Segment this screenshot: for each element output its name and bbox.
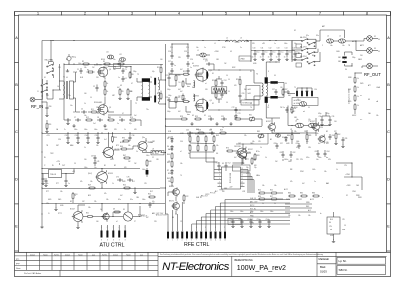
svg-text:3: 3 (205, 227, 206, 229)
svg-text:R71a: R71a (256, 151, 260, 153)
svg-text:47: 47 (122, 113, 124, 115)
capacitor C63 row (317, 151, 319, 153)
capacitor C53 row (259, 219, 261, 221)
svg-text:C24: C24 (224, 80, 227, 82)
svg-text:FB: FB (114, 66, 116, 68)
svg-text:35V: 35V (252, 43, 255, 45)
svg-text:1k: 1k (357, 96, 359, 98)
resistor R27 output (282, 88, 284, 90)
feedback capacitor C25 (221, 92, 223, 94)
svg-text:D7: D7 (167, 170, 169, 172)
svg-text:1k: 1k (274, 203, 276, 205)
resistor R51 (86, 216, 88, 218)
svg-text:DR 100u: DR 100u (152, 153, 158, 155)
svg-text:4k7: 4k7 (234, 157, 237, 159)
wire rail row taps (67, 133, 69, 135)
junction dots pass3 (73, 63, 74, 64)
svg-text:C35: C35 (95, 135, 98, 137)
svg-text:0R22: 0R22 (110, 159, 114, 161)
svg-text:1n: 1n (204, 47, 206, 49)
svg-text:K3a: K3a (316, 35, 319, 37)
wire bead chain (344, 52, 346, 56)
svg-text:10k: 10k (180, 163, 183, 165)
svg-text:TX: TX (74, 57, 76, 59)
svg-text:100k: 100k (296, 141, 300, 143)
LED D1 status (67, 56, 71, 60)
svg-text:100u: 100u (146, 155, 150, 157)
resistor network row2 (189, 144, 191, 146)
wire Q5 Q6 (108, 145, 110, 147)
svg-text:R9: R9 (122, 91, 124, 93)
capacitor C5 lower path (81, 111, 83, 113)
resistor R5 (87, 71, 89, 73)
svg-text:D3: D3 (113, 209, 115, 211)
svg-text:R86: R86 (312, 193, 315, 195)
junction dots rails (67, 132, 68, 133)
svg-text:T3: T3 (150, 77, 152, 79)
wire top supply rail (42, 40, 227, 42)
box ctrl outline (233, 165, 251, 171)
MOSFET Q17 atu driver (103, 213, 109, 219)
wire supply vertical x251 (250, 41, 252, 63)
svg-text:470u: 470u (306, 157, 310, 159)
wire driver verticals (104, 78, 106, 80)
svg-text:SET: SET (56, 145, 59, 147)
svg-text:C73: C73 (238, 113, 241, 115)
inductor L6 lowpass (296, 123, 304, 128)
capacitor C7 bottom row (75, 119, 77, 121)
svg-text:1n: 1n (222, 127, 224, 129)
svg-text:0.1u: 0.1u (256, 52, 259, 54)
wire RFE pads up (167, 214, 169, 231)
resistor R13 bottom row (107, 119, 109, 121)
svg-text:J5: J5 (48, 213, 50, 215)
svg-text:220: 220 (96, 77, 99, 79)
svg-text:R62: R62 (167, 178, 170, 180)
svg-text:100E: 100E (336, 51, 340, 53)
capacitor C37 (94, 155, 96, 157)
svg-text:1u: 1u (274, 43, 276, 45)
svg-text:470p: 470p (326, 113, 330, 115)
ferrite bead FB3 output upper (270, 81, 277, 84)
svg-text:BZX: BZX (168, 137, 171, 139)
transistor Q14 (313, 124, 320, 131)
inductor L4 (327, 39, 334, 43)
resistor R21 gate lower (175, 96, 177, 98)
svg-text:S1: S1 (192, 87, 194, 89)
snubber resistor R26 (239, 78, 241, 80)
svg-text:n.c: n.c (360, 95, 362, 97)
svg-text:RD16: RD16 (101, 59, 105, 61)
svg-text:HA-12/HA4: HA-12/HA4 (45, 58, 54, 61)
svg-text:5: 5 (215, 227, 216, 229)
svg-text:F2: F2 (346, 195, 348, 197)
svg-text:R57: R57 (270, 196, 273, 198)
relay K4 switch (301, 59, 302, 60)
resistor R7 gate divider (104, 88, 106, 90)
wire right antenna feed (319, 30, 321, 41)
svg-text:10u: 10u (104, 129, 107, 131)
capacitor C70 TC row (218, 163, 220, 165)
svg-text:Datum: Datum (113, 253, 119, 256)
transistor Q10 (239, 151, 246, 158)
resistor array RA1 (212, 87, 227, 94)
svg-text:1k: 1k (112, 183, 114, 185)
svg-text:100n: 100n (318, 157, 322, 159)
svg-text:SD2933: SD2933 (193, 66, 199, 68)
svg-text:1k: 1k (124, 129, 126, 131)
capacitor C52 row (250, 219, 252, 221)
capacitor C45 top row (187, 132, 189, 134)
ferrite bead FB2 (342, 61, 346, 63)
svg-text:C37: C37 (91, 156, 94, 158)
svg-text:10k: 10k (308, 215, 311, 217)
svg-text:D1: D1 (212, 73, 214, 75)
svg-text:BC557: BC557 (310, 121, 315, 123)
wire rail y203 (42, 203, 165, 205)
PA core bias verticals (185, 78, 187, 84)
svg-text:OUT: OUT (62, 165, 65, 167)
capacitor C4 (122, 76, 124, 78)
svg-text:4R7: 4R7 (112, 95, 115, 97)
connector X1 RF_IN jack (30, 97, 35, 102)
svg-text:1n: 1n (117, 123, 119, 125)
svg-text:C64: C64 (327, 151, 330, 153)
svg-text:Name: Name (78, 254, 83, 256)
capacitor C3 (122, 68, 124, 70)
svg-text:13V8: 13V8 (352, 191, 356, 193)
capacitor C1 input coupling (80, 68, 82, 70)
svg-text:RXTX: RXTX (205, 194, 209, 196)
jack leads (372, 38, 378, 40)
svg-text:4k7: 4k7 (302, 183, 305, 185)
svg-text:Norm: Norm (16, 267, 21, 270)
svg-text:LFB42: LFB42 (240, 59, 245, 61)
svg-text:D: D (387, 177, 390, 181)
svg-text:C34: C34 (85, 135, 88, 137)
svg-text:L2: L2 (226, 38, 228, 40)
svg-text:C23: C23 (165, 97, 168, 99)
svg-text:2n2: 2n2 (93, 123, 96, 125)
svg-text:REF: REF (348, 89, 351, 91)
wire T1 out (76, 71, 78, 73)
svg-text:10: 10 (228, 91, 230, 93)
svg-text:T2: T2 (137, 74, 139, 76)
capacitor C40 reg out (65, 178, 67, 180)
capacitor bank C10 (254, 51, 256, 53)
switch coil boxes (296, 44, 302, 48)
svg-text:gap: gap (92, 254, 95, 256)
svg-text:1N4: 1N4 (136, 197, 139, 199)
svg-text:Q4: Q4 (210, 100, 212, 102)
svg-text:220: 220 (96, 107, 99, 109)
svg-text:T2: T2 (135, 103, 137, 105)
svg-text:Maßstab: Maßstab (319, 257, 330, 261)
svg-text:C19: C19 (184, 51, 187, 53)
svg-text:1k: 1k (265, 157, 267, 159)
svg-text:4x31: 4x31 (248, 89, 252, 91)
svg-text:IN: IN (44, 157, 46, 159)
wire relay down to T1 (46, 97, 48, 100)
svg-text:1u: 1u (283, 107, 285, 109)
svg-text:gepr: gepr (16, 262, 20, 265)
svg-text:520: 520 (205, 89, 208, 91)
svg-text:B: B (15, 83, 18, 87)
MOSFET Q3 PA upper (196, 69, 208, 81)
wire relay drive (94, 216, 123, 218)
svg-text:C36: C36 (132, 135, 135, 137)
wire bias rail (64, 64, 163, 66)
wire switch outs (308, 38, 317, 40)
capacitor C34 rail row (87, 135, 89, 137)
svg-text:10n: 10n (316, 159, 319, 161)
resistor R71 (251, 157, 253, 159)
svg-text:4: 4 (178, 12, 180, 16)
svg-text:RLY: RLY (150, 191, 153, 193)
svg-text:C31: C31 (332, 116, 335, 118)
svg-text:100u: 100u (142, 169, 146, 171)
svg-text:C+: C+ (64, 129, 66, 131)
inductor L5 (339, 39, 346, 43)
svg-text:R80: R80 (287, 135, 290, 137)
svg-text:1kV: 1kV (334, 121, 337, 123)
svg-text:Rv(%): Rv(%) (54, 254, 59, 256)
diode D10 (285, 136, 287, 138)
wire K6 (333, 212, 335, 217)
svg-text:1n: 1n (118, 77, 120, 79)
svg-text:U3: U3 (222, 163, 224, 165)
svg-text:coax: coax (342, 229, 345, 231)
wire PA drains to T4 (208, 69, 254, 71)
svg-text:10u: 10u (294, 43, 297, 45)
svg-text:D: D (15, 177, 18, 181)
capacitor C9 bottom row (119, 119, 121, 121)
svg-text:1k: 1k (357, 78, 359, 80)
svg-text:C19: C19 (186, 47, 189, 49)
svg-text:Datum: Datum (65, 253, 71, 256)
svg-text:1n: 1n (276, 57, 278, 59)
svg-text:100n: 100n (84, 167, 88, 169)
svg-text:D10: D10 (282, 137, 285, 139)
svg-text:C10: C10 (253, 48, 256, 50)
svg-text:47p: 47p (129, 123, 132, 125)
wire mid F (247, 152, 251, 154)
svg-text:6: 6 (272, 12, 274, 16)
capacitor C8 bottom row (97, 119, 99, 121)
MOSFET Q11 small (173, 189, 180, 196)
bus wires RFE (225, 199, 290, 201)
svg-text:RF_OUT: RF_OUT (364, 72, 381, 77)
svg-text:R48: R48 (149, 161, 152, 163)
svg-text:1k: 1k (136, 151, 138, 153)
svg-text:1n: 1n (292, 57, 294, 59)
svg-text:R90: R90 (122, 138, 125, 140)
svg-text:C77: C77 (205, 61, 208, 63)
svg-text:-30dB: -30dB (376, 87, 380, 89)
svg-text:100n: 100n (284, 43, 288, 45)
svg-text:R51: R51 (86, 213, 89, 215)
SWR bridge box (292, 98, 318, 106)
bias resistor R30 (234, 118, 236, 120)
svg-text:MOX: MOX (232, 67, 235, 69)
svg-text:J1: J1 (37, 91, 39, 93)
wire PA bottom (166, 126, 263, 128)
svg-text:50: 50 (378, 51, 380, 53)
wire left vertical rail (41, 41, 43, 197)
svg-text:4148: 4148 (180, 133, 184, 135)
svg-text:R82: R82 (257, 131, 260, 133)
svg-text:10k: 10k (274, 185, 277, 187)
ferrite bead FB4 output lower (270, 96, 277, 99)
connector K6 box (327, 217, 340, 234)
connector X3 ant jack B (367, 48, 373, 54)
svg-text:10k: 10k (128, 145, 131, 147)
svg-text:R27: R27 (285, 89, 288, 91)
svg-text:REF: REF (250, 219, 253, 221)
svg-text:FB43: FB43 (358, 59, 362, 61)
box output module (246, 86, 260, 100)
capacitor C62 row (290, 152, 292, 154)
svg-text:10k: 10k (46, 183, 49, 185)
svg-text:54: 54 (210, 129, 212, 131)
wire mid rail (42, 133, 300, 135)
svg-text:10: 10 (228, 79, 230, 81)
wire cap bank top (251, 50, 295, 52)
svg-text:C81: C81 (345, 138, 348, 140)
capacitor C76 near Q7 (127, 179, 129, 181)
capacitor C30 lowpass (321, 117, 323, 119)
svg-text:K5: K5 (123, 209, 125, 211)
svg-text:100W_PA_rev2: 100W_PA_rev2 (237, 264, 286, 272)
inductor L7 lowpass (309, 123, 317, 128)
svg-text:1:9: 1:9 (267, 107, 269, 109)
resistor R90 near Q6 (122, 140, 124, 142)
capacitor bank C11 (262, 51, 264, 53)
svg-text:BLN: BLN (80, 77, 83, 79)
wire left drop (42, 101, 47, 103)
svg-text:Datum: Datum (30, 253, 36, 256)
svg-text:L1: L1 (197, 50, 199, 52)
ferrite bead FB1 (342, 57, 346, 59)
capacitor C19 stack2 (187, 53, 189, 55)
capacitor C64 row (324, 151, 326, 153)
IC U3 pins right (241, 169, 245, 171)
svg-text:557: 557 (280, 143, 283, 145)
wire snubber (239, 86, 241, 93)
svg-text:1k: 1k (108, 117, 110, 119)
wire Q1 to T2 (108, 66, 131, 68)
coil small L10 (275, 134, 280, 137)
svg-text:R70: R70 (226, 148, 229, 150)
svg-text:1k: 1k (262, 203, 264, 205)
svg-text:2kV: 2kV (360, 55, 363, 57)
svg-text:C50: C50 (230, 219, 233, 221)
svg-text:C30: C30 (319, 116, 322, 118)
svg-text:10k: 10k (96, 145, 99, 147)
svg-text:22k: 22k (168, 181, 171, 183)
svg-text:BC557: BC557 (266, 121, 271, 123)
svg-text:R81: R81 (309, 135, 312, 137)
capacitor C18 stack left (171, 68, 173, 70)
svg-text:BS: BS (172, 217, 174, 219)
resistor R49 on rail188 (88, 187, 90, 189)
svg-text:L5a: L5a (342, 45, 345, 47)
capacitor C51 row (241, 219, 243, 221)
transistor Q15 (319, 136, 325, 142)
svg-text:C2: C2 (93, 86, 95, 88)
resistor R60 stack (171, 152, 173, 154)
capacitor C71 TC row (225, 163, 227, 165)
svg-text:C?: C? (134, 221, 136, 223)
capacitor C75 near Q7 (117, 179, 119, 181)
svg-text:47k: 47k (104, 193, 107, 195)
svg-text:8x: 8x (188, 153, 190, 155)
svg-text:R72: R72 (186, 196, 189, 198)
svg-text:47u: 47u (152, 201, 155, 203)
svg-text:Blatt: Blatt (320, 265, 326, 269)
svg-text:RD16HHF1: RD16HHF1 (94, 65, 102, 67)
svg-text:R2: R2 (82, 61, 84, 63)
svg-text:FB2: FB2 (338, 61, 341, 63)
resistor R56 right (258, 198, 260, 200)
svg-text:10k: 10k (298, 215, 301, 217)
svg-text:25V: 25V (178, 57, 181, 59)
svg-text:10: 10 (179, 82, 181, 84)
junctions area A (73, 71, 74, 72)
svg-text:RN2: RN2 (216, 135, 219, 137)
resistor R11 lower path (90, 111, 92, 113)
svg-text:BC547: BC547 (70, 209, 75, 211)
svg-text:R4: R4 (118, 61, 120, 63)
svg-text:C1: C1 (77, 69, 79, 71)
svg-text:O1: O1 (344, 225, 346, 227)
svg-text:PTT2: PTT2 (58, 213, 62, 215)
SWR bridge pads (296, 91, 298, 97)
svg-text:Name: Name (43, 254, 48, 256)
svg-text:R91: R91 (49, 124, 52, 126)
svg-text:1u: 1u (314, 181, 316, 183)
svg-text:78L05: 78L05 (50, 174, 57, 176)
svg-text:1k: 1k (100, 209, 102, 211)
svg-text:(Rv2): (Rv2) (88, 173, 92, 175)
svg-text:12V: 12V (258, 141, 261, 143)
svg-text:547: 547 (82, 201, 85, 203)
svg-text:R54: R54 (258, 190, 261, 192)
capacitor C33 rail row (77, 135, 79, 137)
svg-text:+13V8: +13V8 (214, 51, 219, 53)
PA core extra gate network (160, 66, 162, 68)
svg-text:TC1: TC1 (216, 163, 219, 165)
svg-text:10u: 10u (70, 105, 73, 107)
svg-text:7: 7 (319, 12, 321, 16)
svg-text:10n: 10n (113, 69, 116, 71)
wire IC pins to bus (214, 169, 218, 171)
svg-text:A: A (15, 36, 18, 40)
svg-text:47p: 47p (152, 71, 155, 73)
svg-text:E: E (15, 224, 18, 228)
svg-text:100n: 100n (270, 211, 274, 213)
wire to jacks (333, 40, 338, 42)
svg-text:2N2: 2N2 (152, 141, 155, 143)
svg-text:C8: C8 (97, 117, 99, 119)
svg-text:0.1u: 0.1u (272, 52, 275, 54)
ground G-D1 (134, 191, 136, 193)
resistor R72 (183, 194, 185, 196)
svg-text:10k: 10k (324, 171, 327, 173)
capacitor C6 bottom row (65, 119, 67, 121)
svg-text:1k: 1k (107, 91, 109, 93)
svg-text:R55: R55 (270, 190, 273, 192)
